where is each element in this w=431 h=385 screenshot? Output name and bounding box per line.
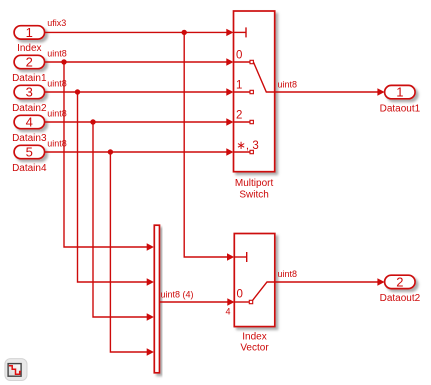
wire W3: inport3 to Multiport Switch port 1	[45, 79, 234, 96]
junction node on W1	[182, 30, 187, 35]
Multiport Switch control pin T symbol	[234, 27, 247, 37]
svg-text:Vector: Vector	[240, 342, 269, 353]
svg-text:Dataout2: Dataout2	[380, 293, 421, 304]
junction node on W2	[61, 59, 66, 64]
svg-text:uint8: uint8	[47, 49, 67, 59]
wire W1 branch down to Index Vector control	[184, 32, 234, 260]
svg-text:2: 2	[236, 110, 242, 122]
svg-text:0: 0	[236, 50, 242, 62]
wire W2: inport2 to Multiport Switch port 0	[45, 49, 234, 66]
inport 4 (Datain3)	[12, 114, 47, 144]
svg-text:Switch: Switch	[239, 190, 268, 201]
inport 1 (Index)	[14, 25, 44, 54]
Multiport Switch port *,3 (stub, square, label)	[234, 140, 259, 154]
Index Vector block	[234, 234, 274, 354]
svg-text:5: 5	[26, 144, 33, 159]
wire W3 branch down to Mux input 2	[78, 92, 154, 286]
inport 2 (Datain1)	[12, 54, 47, 84]
junction node on W3	[75, 89, 80, 94]
svg-text:4: 4	[226, 307, 231, 317]
svg-text:Datain2: Datain2	[12, 103, 47, 114]
svg-text:3: 3	[26, 84, 33, 99]
svg-text:4: 4	[26, 114, 33, 129]
svg-text:Dataout1: Dataout1	[380, 103, 421, 114]
svg-text:uint8: uint8	[47, 109, 67, 119]
svg-text:∗, 3: ∗, 3	[236, 140, 258, 152]
outport 1 (Dataout1)	[380, 85, 421, 115]
svg-text:Multiport: Multiport	[235, 178, 274, 189]
wire W4: inport4 to Multiport Switch port 2	[45, 109, 234, 126]
svg-text:1: 1	[396, 85, 403, 100]
svg-text:uint8: uint8	[278, 269, 298, 279]
outport 2 (Dataout2)	[380, 274, 421, 304]
svg-text:2: 2	[396, 274, 403, 289]
junction node on W4	[90, 119, 95, 124]
Multiport Switch selector diagonal	[253, 62, 274, 92]
svg-text:uint8: uint8	[47, 139, 67, 149]
Index Vector control pin T symbol	[234, 252, 246, 262]
svg-text:Datain3: Datain3	[12, 133, 47, 144]
svg-text:ufix3: ufix3	[47, 18, 66, 28]
wire W5 branch down to Mux input 4	[110, 152, 153, 356]
Mux block	[154, 225, 159, 373]
Multiport Switch port 1 (stub, square, label)	[234, 80, 254, 94]
wire: Mux output to Index Vector data input	[160, 290, 235, 317]
svg-text:1: 1	[236, 80, 242, 92]
Multiport Switch port 0 (stub, square, label)	[234, 50, 254, 64]
Multiport Switch block	[234, 11, 275, 201]
svg-text:0: 0	[237, 289, 243, 301]
wire W4 branch down to Mux input 3	[93, 122, 154, 321]
inport 5 (Datain4)	[12, 144, 47, 174]
svg-text:uint8 (4): uint8 (4)	[161, 290, 194, 300]
svg-text:Index: Index	[17, 43, 41, 54]
wire W1: inport1 to Multiport Switch control	[45, 18, 234, 36]
junction node on W5	[108, 149, 113, 154]
wire W5: inport5 to Multiport Switch port *,3	[45, 139, 234, 156]
svg-text:uint8: uint8	[47, 79, 67, 89]
wire: Index Vector output to Dataout2	[275, 269, 385, 286]
svg-text:2: 2	[26, 54, 33, 69]
svg-text:uint8: uint8	[278, 79, 298, 89]
wire W2 branch down to Mux input 1	[64, 62, 154, 251]
sample-time legend button (bottom-left)	[5, 359, 27, 381]
svg-text:1: 1	[26, 25, 33, 40]
Multiport Switch port 2 (stub, square, label)	[234, 110, 254, 124]
svg-text:Datain4: Datain4	[12, 163, 47, 174]
Index Vector selector diagonal	[253, 282, 275, 300]
inport 3 (Datain2)	[12, 84, 47, 114]
svg-text:Datain1: Datain1	[12, 73, 47, 84]
Index Vector port 0 (stub, square, label)	[234, 289, 252, 304]
wire: Multiport Switch output to Dataout1	[275, 79, 385, 95]
svg-text:Index: Index	[242, 332, 266, 343]
